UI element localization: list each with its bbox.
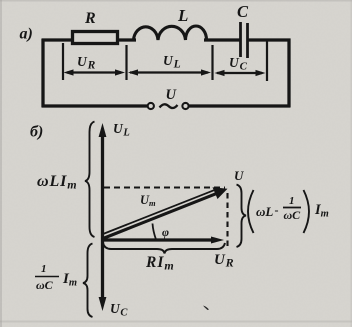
label UL phasor xyxy=(113,121,130,139)
wire: R to L segment xyxy=(117,38,136,41)
tick between L and C spans xyxy=(211,45,213,80)
under-brace for RIm xyxy=(103,243,225,254)
label UR phasor xyxy=(214,252,234,270)
label RIm xyxy=(145,254,175,273)
svg-text:1: 1 xyxy=(41,263,47,275)
formula (wL - 1/wC) Im xyxy=(248,190,329,233)
label UL xyxy=(163,53,181,71)
wire: left vertical of loop xyxy=(41,39,44,107)
label L xyxy=(177,6,188,25)
label UC phasor xyxy=(110,301,128,319)
dimension arrow UL xyxy=(128,69,211,75)
label b) xyxy=(30,124,43,141)
bottom scan streak xyxy=(0,321,352,323)
label 1/wC Im fraction xyxy=(35,263,77,292)
svg-text:a): a) xyxy=(20,26,33,43)
svg-text:ωC: ωC xyxy=(36,278,54,292)
vector RIm horizontal xyxy=(103,237,225,244)
source terminal left xyxy=(148,103,154,109)
svg-text:R: R xyxy=(84,10,96,27)
wire: top left segment xyxy=(42,38,75,41)
label UR xyxy=(77,54,96,72)
label U source xyxy=(166,87,178,103)
svg-text:UR: UR xyxy=(214,252,234,270)
tick at left of UR span xyxy=(62,43,64,80)
svg-text:1: 1 xyxy=(289,195,295,207)
right brace for reactance difference xyxy=(237,185,247,248)
capacitor C xyxy=(241,22,248,58)
svg-text:U: U xyxy=(234,168,244,183)
label phi xyxy=(162,225,169,239)
angle arc phi xyxy=(153,224,157,240)
label wL Im xyxy=(37,173,78,192)
resistor R xyxy=(73,32,118,44)
inductor L xyxy=(134,26,207,40)
vector UL axis up xyxy=(99,123,107,239)
label UC xyxy=(229,55,248,73)
dashed vertical from U tip xyxy=(226,193,228,246)
tick at right of UC span xyxy=(266,41,268,81)
source tilde xyxy=(160,104,178,108)
svg-text:L: L xyxy=(177,6,188,25)
vector U resultant (outline double-stroke) xyxy=(103,187,228,238)
label R xyxy=(84,10,96,27)
svg-text:-: - xyxy=(275,203,279,217)
scan speck xyxy=(203,306,209,311)
label C xyxy=(237,2,249,21)
dimension arrow UC xyxy=(215,70,266,76)
svg-text:C: C xyxy=(237,2,249,21)
wire: bottom left segment xyxy=(42,104,148,107)
svg-text:φ: φ xyxy=(162,225,169,239)
brace for wL Im xyxy=(85,122,95,238)
wire: L to C segment xyxy=(204,38,240,41)
svg-text:ωC: ωC xyxy=(284,208,302,222)
tick between R and L spans xyxy=(125,45,127,80)
svg-text:ωL: ωL xyxy=(256,204,273,219)
label a) xyxy=(20,26,33,43)
svg-text:U: U xyxy=(166,87,178,103)
wire: bottom right segment xyxy=(189,104,291,107)
vector UC axis down xyxy=(99,239,107,311)
dimension arrow UR xyxy=(64,69,126,75)
label Um on shaft xyxy=(140,193,156,208)
svg-text:б): б) xyxy=(30,124,43,141)
brace for 1/wC Im xyxy=(83,244,93,318)
wire: C to right corner xyxy=(248,38,291,41)
label U tip xyxy=(234,168,244,183)
wire: right vertical of loop xyxy=(287,39,290,108)
dashed horizontal to U tip xyxy=(104,186,225,188)
source terminal right xyxy=(182,103,188,109)
